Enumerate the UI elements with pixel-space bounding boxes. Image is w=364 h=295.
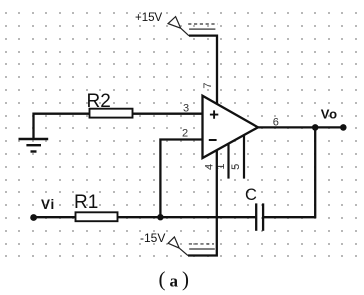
svg-text:5: 5 <box>230 164 242 170</box>
junction node A dot <box>157 214 163 220</box>
Vo label <box>321 107 338 122</box>
svg-text:6: 6 <box>273 117 279 129</box>
Vi label <box>41 197 55 212</box>
op-amp pin 1 stub <box>227 143 229 178</box>
pin 7 label <box>202 82 214 88</box>
svg-text:a: a <box>170 272 179 291</box>
svg-text:(: ( <box>159 267 166 291</box>
wire R2 to op-amp pin 3 <box>133 113 203 115</box>
C value label <box>245 186 257 204</box>
wire op-amp pin 2 to node A <box>160 140 202 218</box>
wire -15V supply to op-amp pin 4 <box>188 150 217 256</box>
svg-text:C: C <box>245 186 257 204</box>
R1 value label <box>74 192 98 213</box>
R2 value label <box>87 91 111 112</box>
power port -15V <box>140 231 215 256</box>
svg-text:+15V: +15V <box>135 12 163 24</box>
resistor R2 <box>90 109 133 118</box>
svg-text:4: 4 <box>203 164 215 170</box>
output terminal Vo dot <box>340 124 347 131</box>
output junction dot <box>312 124 319 131</box>
pin 3 label <box>183 103 189 115</box>
svg-text:R1: R1 <box>74 192 98 213</box>
caption (a) <box>159 267 190 291</box>
svg-text:7: 7 <box>202 82 214 88</box>
op-amp <box>203 96 259 158</box>
svg-text:Vo: Vo <box>321 107 338 122</box>
svg-text:R2: R2 <box>87 91 111 112</box>
power port +15V <box>135 12 218 36</box>
svg-text:3: 3 <box>183 103 189 115</box>
svg-text:-15V: -15V <box>140 231 165 245</box>
wire Vi to R1 <box>34 216 76 218</box>
wire +15V supply to op-amp pin 7 <box>189 36 217 105</box>
input terminal Vi <box>30 214 37 221</box>
resistor R1 <box>76 212 118 221</box>
wire capacitor to output node <box>263 127 315 217</box>
wire op-amp pin 6 output to Vo <box>258 126 343 128</box>
svg-text:): ) <box>182 267 189 291</box>
op-amp pin 5 stub <box>243 135 245 179</box>
pin 5 label <box>230 164 242 170</box>
svg-text:2: 2 <box>182 128 188 140</box>
pin 2 label <box>182 128 188 140</box>
wire R1 to capacitor (inverting input net) <box>118 216 257 218</box>
capacitor C <box>256 203 263 230</box>
ground <box>19 139 49 152</box>
wire ground to R2 <box>34 114 90 139</box>
pin 1 label <box>215 163 227 169</box>
pin 4 label <box>203 164 215 170</box>
svg-text:Vi: Vi <box>41 197 55 212</box>
pin 6 label <box>273 117 279 129</box>
